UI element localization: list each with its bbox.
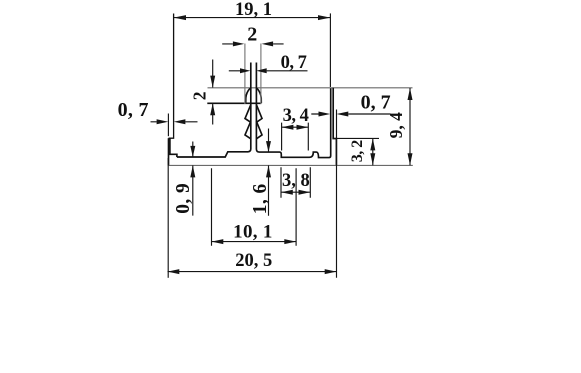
dimension 2 left line (212, 60, 214, 125)
arrowhead 1,6 lower (266, 165, 271, 177)
arrowhead 3,4 left (282, 125, 294, 130)
dimension 0,7 right extension (336, 110, 338, 278)
left wall lower outer edge (168, 138, 170, 165)
arrowhead 10,1 left (212, 239, 224, 244)
svg-text:2: 2 (247, 24, 257, 46)
arrowhead 0,7 left-dim left (157, 119, 169, 124)
dimension 3,8 extensions (281, 167, 310, 198)
arrowhead 3,2 top (370, 138, 375, 150)
top web bottom edge (207, 102, 261, 104)
left wall inner foot (170, 138, 177, 157)
arrowhead 9,4 bottom (408, 153, 413, 165)
svg-text:2: 2 (189, 92, 209, 100)
tongue barb tier 2 (245, 105, 262, 123)
arrowhead 2 left lower (210, 103, 215, 115)
dimension 2 top line (222, 43, 283, 45)
arrowhead 0,7 top right (256, 68, 266, 73)
dimension 0,7 right line (311, 113, 390, 115)
svg-text:0, 9: 0, 9 (173, 183, 194, 214)
tongue stem left line (248, 63, 251, 152)
dimension 10,1 extensions (212, 168, 297, 246)
tongue stem right line + floor right of stem (256, 63, 330, 158)
svg-text:3, 8: 3, 8 (282, 171, 310, 191)
top web top edge (208, 87, 413, 89)
svg-text:0, 7: 0, 7 (118, 99, 149, 121)
dimension 0,7 top line (229, 70, 308, 72)
arrowhead 20,5 right (325, 269, 337, 274)
dimension 3,8 line (281, 191, 310, 193)
arrowhead 1,6 upper (266, 141, 271, 152)
arrowhead 10,1 right (284, 239, 296, 244)
svg-text:1, 6: 1, 6 (250, 183, 271, 214)
dimension 2 top extensions (245, 44, 261, 105)
arrowhead 2 left upper (210, 76, 215, 88)
arrowhead 3,8 left (281, 190, 293, 195)
dimension 3,4 line (282, 126, 309, 128)
tongue barb tier 1 (bell) right (257, 88, 261, 103)
arrowhead 19,1 left (174, 15, 186, 20)
arrowhead 2 top right (262, 41, 274, 46)
dimension 9,4 line (409, 88, 411, 165)
arrowhead 0,9 upper (190, 146, 195, 157)
arrowhead 0,7 right-dim left (319, 112, 331, 117)
svg-text:9, 4: 9, 4 (386, 112, 406, 139)
base bottom edge (169, 164, 413, 166)
tongue barb tier 3 (245, 121, 262, 139)
svg-text:10, 1: 10, 1 (233, 222, 273, 243)
left wall outer face (169, 14, 174, 139)
arrowhead 3,4 right (297, 125, 309, 130)
dimension 0,7 left line (151, 121, 198, 123)
arrowhead 3,8 right (299, 190, 311, 195)
arrowhead 2 top left (233, 41, 244, 46)
arrowhead 3,2 bottom (370, 153, 375, 165)
svg-text:3, 4: 3, 4 (283, 106, 309, 126)
svg-text:3, 2: 3, 2 (349, 140, 366, 163)
arrowhead 9,4 top (408, 88, 413, 100)
dimension 19,1 line (174, 17, 331, 19)
svg-text:0, 7: 0, 7 (361, 92, 391, 114)
dimension 0,7 left extension (167, 114, 169, 137)
right wall outer face (333, 88, 336, 166)
dimension 20,5 line (168, 271, 337, 273)
dimension 19,1 right extension (329, 13, 331, 87)
arrowhead 19,1 right (318, 15, 330, 20)
svg-text:0, 7: 0, 7 (281, 53, 307, 73)
dimension 3,4 extensions (282, 123, 309, 151)
dimension 0,9 line (192, 142, 194, 216)
arrowhead 0,9 lower (190, 165, 195, 177)
svg-text:20, 5: 20, 5 (235, 251, 272, 271)
svg-text:19, 1: 19, 1 (235, 0, 272, 20)
channel floor left segment (177, 152, 248, 157)
dimension 3,2 line (372, 138, 374, 165)
dimension 10,1 line (212, 241, 297, 243)
dimension 3,2 top extension (335, 137, 380, 139)
dimension 1,6 line (268, 129, 270, 216)
arrowhead 20,5 left (168, 269, 180, 274)
arrowhead 0,7 right-dim right (337, 112, 349, 117)
tongue barb tier 1 (bell) left (246, 88, 250, 103)
arrowhead 0,7 left-dim right (174, 119, 186, 124)
arrowhead 0,7 top left (240, 68, 250, 73)
dimension 20,5 extensions (167, 158, 169, 278)
